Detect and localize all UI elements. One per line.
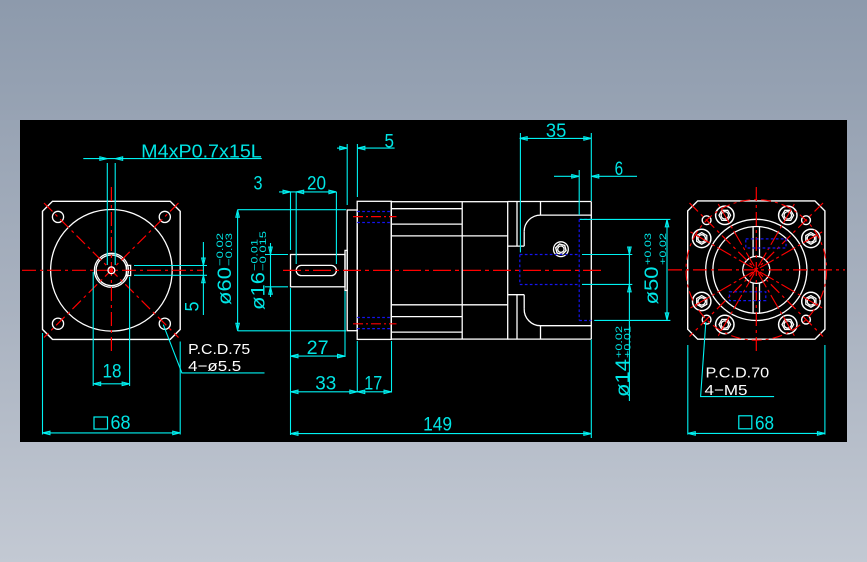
motor rear bottom edge [508, 338, 592, 340]
hidden hole ø14 top [520, 254, 579, 256]
right view horizontal center line [668, 269, 845, 271]
dim d60 ext top [238, 209, 346, 211]
through-bolt screw 6 head [779, 315, 797, 333]
dim 5 line right [357, 147, 394, 149]
through-bolt screw 6 hex [782, 319, 794, 329]
motor rear vertical top [540, 202, 542, 216]
dim 17 arrow right [384, 390, 392, 394]
adapter step line top [508, 245, 525, 247]
dim 6 line left [554, 175, 579, 177]
right view PCD70 circle [686, 200, 827, 341]
dim 33 arrow left [291, 390, 299, 394]
dim M4 arrow left [100, 157, 108, 161]
right view diagonal 1 [690, 203, 824, 337]
left flange bolt hole 3 ø5.5 [52, 318, 63, 329]
dim 20 arrow left [296, 190, 304, 194]
svg-text:3: 3 [254, 174, 263, 195]
through-bolt screw 4 hex [806, 233, 816, 245]
dim d60 arrow top [236, 210, 240, 218]
right hidden key slot upper [746, 239, 786, 248]
shaft shoulder ø20 [345, 250, 347, 290]
dim 5 arrow right [357, 146, 365, 150]
dim d14 arrow bottom [628, 284, 632, 292]
dim 27 arrow right [338, 354, 346, 358]
M5 tapped hole 2 [802, 216, 811, 225]
dim d16 arrow top [269, 247, 273, 255]
through-bolt screw 2 hex [719, 210, 731, 220]
dim left 68 ext right [179, 342, 181, 435]
gearbox body outline [391, 202, 507, 339]
through-bolt screw 5 socket [807, 298, 814, 305]
dim 18 ext left [92, 272, 94, 386]
dim left 68 arrow left [43, 431, 51, 435]
dim right 68 arrow right [817, 432, 825, 436]
through-bolt screw 5 head [802, 292, 820, 310]
gearbox body line top1 [391, 208, 462, 210]
left center red dot [110, 268, 114, 272]
flange hidden hole top line2 [357, 222, 391, 224]
dim d50 arrow top [665, 219, 669, 227]
dim d60 arrow bottom [236, 323, 240, 331]
dim 5 line left [337, 147, 347, 149]
dim right 68 ext right [824, 345, 826, 435]
through-bolt screw 7 head [716, 315, 734, 333]
svg-text:4−M5: 4−M5 [705, 382, 748, 399]
svg-text:+0.03: +0.03 [643, 233, 654, 265]
through-bolt screw 8 hex [697, 296, 707, 308]
dim 35/149 ext right upper [590, 133, 592, 201]
gearbox body internal vertical [461, 202, 463, 339]
dim 5 ext left [346, 144, 348, 205]
left view diagonal center line 1 [44, 203, 179, 338]
hidden recess ø50 bottom [579, 320, 591, 322]
svg-text:−0.03: −0.03 [224, 233, 235, 266]
motor rear left edge top [523, 231, 525, 246]
dim 6 line right [591, 175, 637, 177]
svg-text:P.C.D.70: P.C.D.70 [706, 364, 770, 381]
svg-text:68: 68 [111, 413, 131, 434]
shaft keyway slot [296, 265, 336, 275]
left keyway key rect [126, 265, 130, 275]
dim d16 ext top [265, 254, 288, 256]
dim right 68 arrow left [688, 432, 696, 436]
dim 20 arrow right [329, 190, 337, 194]
flange hidden hole bottom line2 [357, 328, 391, 330]
through-bolt screw 5 hex [806, 296, 816, 308]
screw inner circle [558, 246, 564, 252]
dim 33-17 line [291, 391, 392, 393]
dim 27/33/149 ext left [290, 288, 292, 435]
flange hidden hole bottom line1 [357, 317, 391, 319]
through-bolt screw 4 socket [807, 235, 814, 242]
dim 6 arrow right [591, 175, 599, 179]
dim key5 ext top [134, 265, 207, 267]
gearbox body line bot3 [391, 304, 507, 306]
dim 20 ext line left [295, 192, 297, 264]
hidden hole ø14 left [519, 255, 521, 285]
dim d50 ext bottom [594, 319, 670, 321]
dim key5 arrow top [202, 258, 206, 266]
dim 17 ext right [391, 341, 393, 393]
hidden recess ø50 top [579, 218, 591, 220]
gearbox body line bot1 [391, 331, 462, 333]
dim M4 arrow right [115, 157, 123, 161]
through-bolt screw 8 socket [698, 298, 705, 305]
screw head circle [554, 242, 569, 257]
dim 27 line [291, 355, 346, 357]
svg-text:ø50: ø50 [642, 267, 663, 305]
right slot line bottom left [752, 283, 754, 313]
gearbox body line top2 [391, 223, 462, 225]
dim d14 arrow top [628, 247, 632, 255]
dim key5 line [202, 242, 204, 315]
svg-text:ø14: ø14 [613, 359, 634, 397]
right flange square outline [688, 201, 825, 339]
left flange bolt hole 2 ø5.5 [159, 211, 170, 222]
dim left 68 line [43, 432, 181, 434]
dim 27 ext right [344, 291, 346, 357]
dim d50 arrow bottom [665, 313, 669, 321]
dim 33 ext right [356, 341, 358, 393]
drawing canvas background [20, 120, 847, 442]
left view diagonal center line 2 [44, 203, 179, 338]
flange hole center line bottom [353, 323, 397, 325]
motor rear fillet arc top [524, 215, 540, 231]
dim d16 arrow bottom [269, 287, 273, 295]
adapter vertical line [516, 202, 518, 247]
M5 tapped hole 4 [802, 315, 811, 324]
dim 3 ext line [290, 192, 292, 250]
right slot line top left [752, 227, 754, 257]
through-bolt screw 1 hex [697, 233, 707, 245]
motor rear inner bottom line [541, 325, 592, 327]
left view vertical center line [110, 187, 112, 352]
adapter step line bottom [508, 294, 525, 296]
svg-text:+0.01: +0.01 [623, 326, 634, 358]
dim 18 arrow right [122, 382, 130, 386]
dim d16 line [270, 243, 272, 297]
motor rear left edge bottom [523, 295, 525, 309]
svg-text:−0.015: −0.015 [258, 231, 269, 271]
through-bolt screw 2 head [716, 206, 734, 224]
through-bolt screw 2 socket [721, 212, 728, 219]
dim d50 ext top [580, 218, 670, 220]
svg-text:P.C.D.75: P.C.D.75 [188, 341, 250, 358]
right view diagonal 2 [690, 203, 824, 337]
dim 149 arrow left [291, 432, 299, 436]
left shaft circle ø16 inner [96, 255, 127, 286]
right circle middle [713, 227, 800, 314]
right hidden key slot lower [729, 292, 765, 301]
dim d14 line [628, 247, 630, 401]
dim left 68 arrow right [173, 431, 181, 435]
motor rear vertical bottom [540, 326, 542, 339]
middle view center line [283, 269, 601, 271]
through-bolt screw 1 head [693, 229, 711, 247]
dim M4 ext line 2 [114, 163, 116, 265]
adapter vertical line lower [516, 295, 518, 339]
dim 33 arrow right [350, 390, 358, 394]
dim 35/149 ext right lower [590, 340, 592, 438]
left flange pilot circle ø60 [51, 209, 173, 331]
through-bolt screw 7 hex [719, 319, 731, 329]
left flange square outline [43, 201, 181, 339]
left shaft circle ø16 outer [94, 253, 128, 287]
dim 17 arrow left [357, 390, 365, 394]
svg-text:5: 5 [385, 132, 395, 153]
dim d14 ext top [582, 254, 632, 256]
motor rear inner top line [541, 214, 592, 216]
dim 18 arrow left [93, 382, 101, 386]
M5 tapped hole 3 [702, 315, 711, 324]
flange hole center line top [353, 216, 397, 218]
dim 5 arrow left [340, 146, 348, 150]
dim right 68 ext left [687, 345, 689, 435]
dim right 68 line [688, 432, 825, 434]
dim d60 ext bottom [238, 330, 346, 332]
through-bolt screw 4 head [802, 229, 820, 247]
dim 27 arrow left [291, 354, 299, 358]
mounting flange side [357, 201, 391, 339]
dim right 68 square glyph [739, 416, 752, 429]
dim d50 line [666, 219, 668, 320]
svg-text:ø60: ø60 [215, 267, 236, 305]
dim 35 arrow left [520, 137, 528, 141]
dim 20 ext line right [335, 192, 337, 264]
screw hex socket [556, 244, 566, 254]
label PCD75 leader [163, 325, 264, 373]
dim d14 ext bottom [582, 283, 632, 285]
through-bolt screw 3 hex [782, 210, 794, 220]
svg-text:149: 149 [423, 415, 452, 436]
right slot line top right [759, 227, 761, 257]
dim d16 ext bottom [265, 286, 288, 288]
through-bolt screw 1 socket [698, 235, 705, 242]
dim key5 arrow bottom [202, 275, 206, 283]
dim 35 line [520, 137, 592, 139]
hidden recess ø50 vertical [578, 219, 580, 320]
dim 35 ext left [519, 133, 521, 252]
M5 tapped hole 1 [702, 216, 711, 225]
svg-text:ø16: ø16 [249, 272, 270, 310]
right view vertical center line [755, 187, 757, 353]
dim left 68 ext left [42, 333, 44, 435]
right center hole ø14 [743, 256, 770, 283]
label PCD70 leader [701, 322, 775, 397]
flange hidden hole top line1 [357, 211, 391, 213]
dim 35 arrow right [584, 137, 592, 141]
svg-text:4−ø5.5: 4−ø5.5 [188, 358, 241, 375]
dim key5 ext bottom [134, 274, 207, 276]
svg-text:68: 68 [755, 413, 774, 434]
left view horizontal center line [22, 269, 203, 271]
svg-text:5: 5 [182, 302, 203, 312]
dim M4 ext line 1 [106, 163, 108, 265]
dim 18 ext right [129, 277, 131, 386]
through-bolt screw 7 socket [721, 321, 728, 328]
right view radial center lines [760, 272, 824, 309]
motor rear top edge [508, 201, 592, 203]
svg-text:18: 18 [103, 362, 122, 383]
left flange bolt hole 4 ø5.5 [159, 318, 170, 329]
right slot line bottom right [759, 283, 761, 313]
dim 3 arrow [283, 190, 291, 194]
through-bolt screw 3 socket [784, 212, 791, 219]
through-bolt screw 6 socket [784, 321, 791, 328]
pilot boss ø60 [347, 210, 357, 331]
left flange bolt hole 1 ø5.5 [52, 211, 63, 222]
dim 6 arrow left [572, 175, 580, 179]
motor rear fillet arc bottom [524, 309, 540, 326]
dim 3-20 line [279, 191, 336, 193]
motor rear right edge [590, 202, 592, 340]
hidden hole ø14 bottom [520, 284, 579, 286]
gearbox body line top3 [391, 235, 507, 237]
through-bolt screw 3 head [779, 206, 797, 224]
dim M4 line [83, 158, 261, 160]
dim 18 line [93, 383, 129, 385]
dim 6 ext line [578, 170, 580, 215]
dim 149 line [291, 433, 592, 435]
gearbox body line bot2 [391, 316, 462, 318]
dim 5 ext right [356, 144, 358, 197]
right recess circle ø50 [706, 219, 807, 320]
through-bolt screw 8 head [693, 292, 711, 310]
dim left 68 square glyph [94, 417, 108, 429]
dim 149 arrow right [584, 432, 592, 436]
shaft body ø16 [291, 255, 346, 287]
left shaft center circle [108, 267, 115, 274]
dim d60 line [237, 210, 239, 331]
